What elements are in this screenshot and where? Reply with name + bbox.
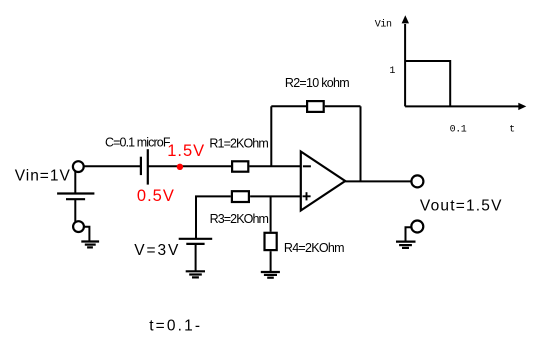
wire plus node to R4 xyxy=(270,196,272,231)
resistor R2 xyxy=(307,101,324,112)
wire capacitor C1 to R1 xyxy=(148,165,231,167)
svg-text:0.5V: 0.5V xyxy=(137,187,175,205)
ground G2 xyxy=(186,271,205,277)
terminal T2 xyxy=(73,221,84,232)
op-amp plus pin mark xyxy=(303,192,311,200)
svg-text:V=3V: V=3V xyxy=(134,242,180,259)
svg-text:R4=2KOhm: R4=2KOhm xyxy=(284,241,344,255)
battery B1 (Vin=1V) xyxy=(57,194,94,200)
svg-text:t=0.1-: t=0.1- xyxy=(149,317,202,334)
svg-text:Vin: Vin xyxy=(375,19,392,31)
wire T2 to ground G1 xyxy=(84,227,90,241)
node N1 (red dot) xyxy=(177,164,183,170)
wire T1 to battery B1 xyxy=(74,172,76,194)
wire R4 to ground G3 xyxy=(270,251,272,272)
resistor R1 xyxy=(232,161,248,171)
svg-text:R2=10 kohm: R2=10 kohm xyxy=(285,76,349,90)
wire R3 to op-amp plus input xyxy=(250,195,301,197)
ground G1 xyxy=(81,242,99,248)
wire battery B1 to T2 xyxy=(74,199,76,222)
svg-text:1: 1 xyxy=(389,66,395,77)
op-amp U1 xyxy=(301,152,345,211)
svg-text:1.5V: 1.5V xyxy=(167,142,205,160)
graph Y axis xyxy=(404,24,406,106)
svg-text:t: t xyxy=(509,124,515,135)
resistor R3 xyxy=(232,191,249,202)
terminal T4 (output ground terminal) xyxy=(411,221,423,233)
svg-text:Vin=1V: Vin=1V xyxy=(15,168,71,185)
wire T1 to capacitor C1 xyxy=(84,165,140,167)
svg-text:R1=2KOhm: R1=2KOhm xyxy=(209,136,268,150)
graph X axis arrowhead xyxy=(518,103,526,110)
wire feedback top left xyxy=(271,105,306,107)
wire feedback left vertical xyxy=(270,106,272,166)
graph Y axis arrowhead xyxy=(402,15,409,23)
ground G4 xyxy=(396,242,416,248)
op-amp minus pin mark xyxy=(303,165,311,167)
wire R1 to op-amp minus input xyxy=(249,165,300,167)
ground G3 xyxy=(261,272,280,278)
wire battery B2 to ground G2 xyxy=(195,244,197,271)
resistor R4 xyxy=(265,233,277,250)
svg-text:0.1: 0.1 xyxy=(450,124,467,135)
svg-text:R3=2KOhm: R3=2KOhm xyxy=(210,212,269,226)
wire R3 left and down to battery B2 xyxy=(196,196,231,238)
wire T4 to ground G4 xyxy=(406,227,412,241)
svg-text:C=0.1 microF: C=0.1 microF xyxy=(105,136,171,150)
svg-text:Vout=1.5V: Vout=1.5V xyxy=(420,198,503,215)
battery B2 (V=3V) xyxy=(179,239,213,244)
wire op-amp output xyxy=(345,180,411,182)
capacitor C1 (C=0.1 microF) xyxy=(141,149,148,184)
terminal T3 (Vout) xyxy=(411,175,423,187)
terminal T1 (Vin top) xyxy=(73,161,84,172)
graph X axis xyxy=(405,105,519,107)
wire feedback top right xyxy=(325,105,361,107)
graph pulse waveform xyxy=(405,61,450,106)
wire feedback right vertical xyxy=(360,106,362,181)
